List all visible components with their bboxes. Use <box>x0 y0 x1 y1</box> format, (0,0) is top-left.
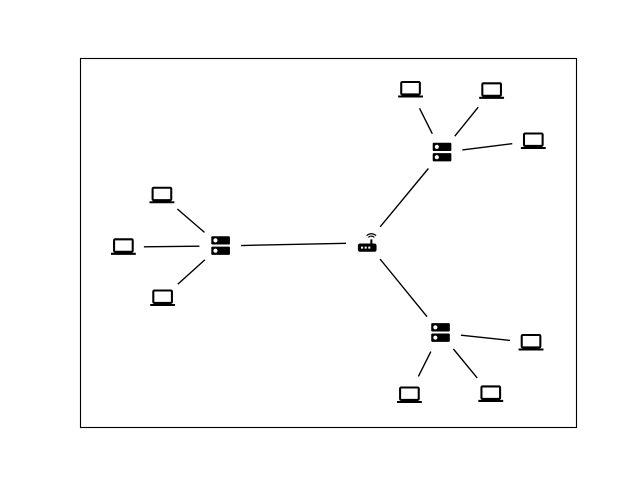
wire switch_2-PC_2_1 <box>144 245 200 248</box>
network switch switch_1 <box>428 320 453 345</box>
wire router-switch_1 <box>380 259 427 317</box>
network switch switch_3 <box>430 140 455 165</box>
computer PC PC_3_3 <box>521 128 546 153</box>
wifi router router <box>355 230 380 255</box>
computer PC PC_2_1 <box>111 234 136 259</box>
computer PC PC_3_1 <box>398 77 423 102</box>
computer PC PC_3_2 <box>479 78 504 103</box>
wire switch_1-PC_1_3 <box>461 335 510 340</box>
computer PC PC_2_3 <box>150 183 175 208</box>
wire switch_2-PC_2_2 <box>178 260 205 284</box>
wire switch_3-PC_3_3 <box>462 144 512 150</box>
wire switch_3-PC_3_1 <box>420 108 433 134</box>
network switch switch_2 <box>208 233 233 258</box>
wire router-switch_2 <box>241 243 346 245</box>
wire switch_1-PC_1_1 <box>418 352 430 377</box>
computer PC PC_1_2 <box>478 381 503 406</box>
wire switch_2-PC_2_3 <box>177 209 204 232</box>
computer PC PC_1_1 <box>397 382 422 407</box>
computer PC PC_2_2 <box>150 285 175 310</box>
wire switch_3-PC_3_2 <box>455 107 478 136</box>
wire router-switch_3 <box>380 169 428 227</box>
wire switch_1-PC_1_2 <box>453 349 477 378</box>
computer PC PC_1_3 <box>519 330 544 355</box>
